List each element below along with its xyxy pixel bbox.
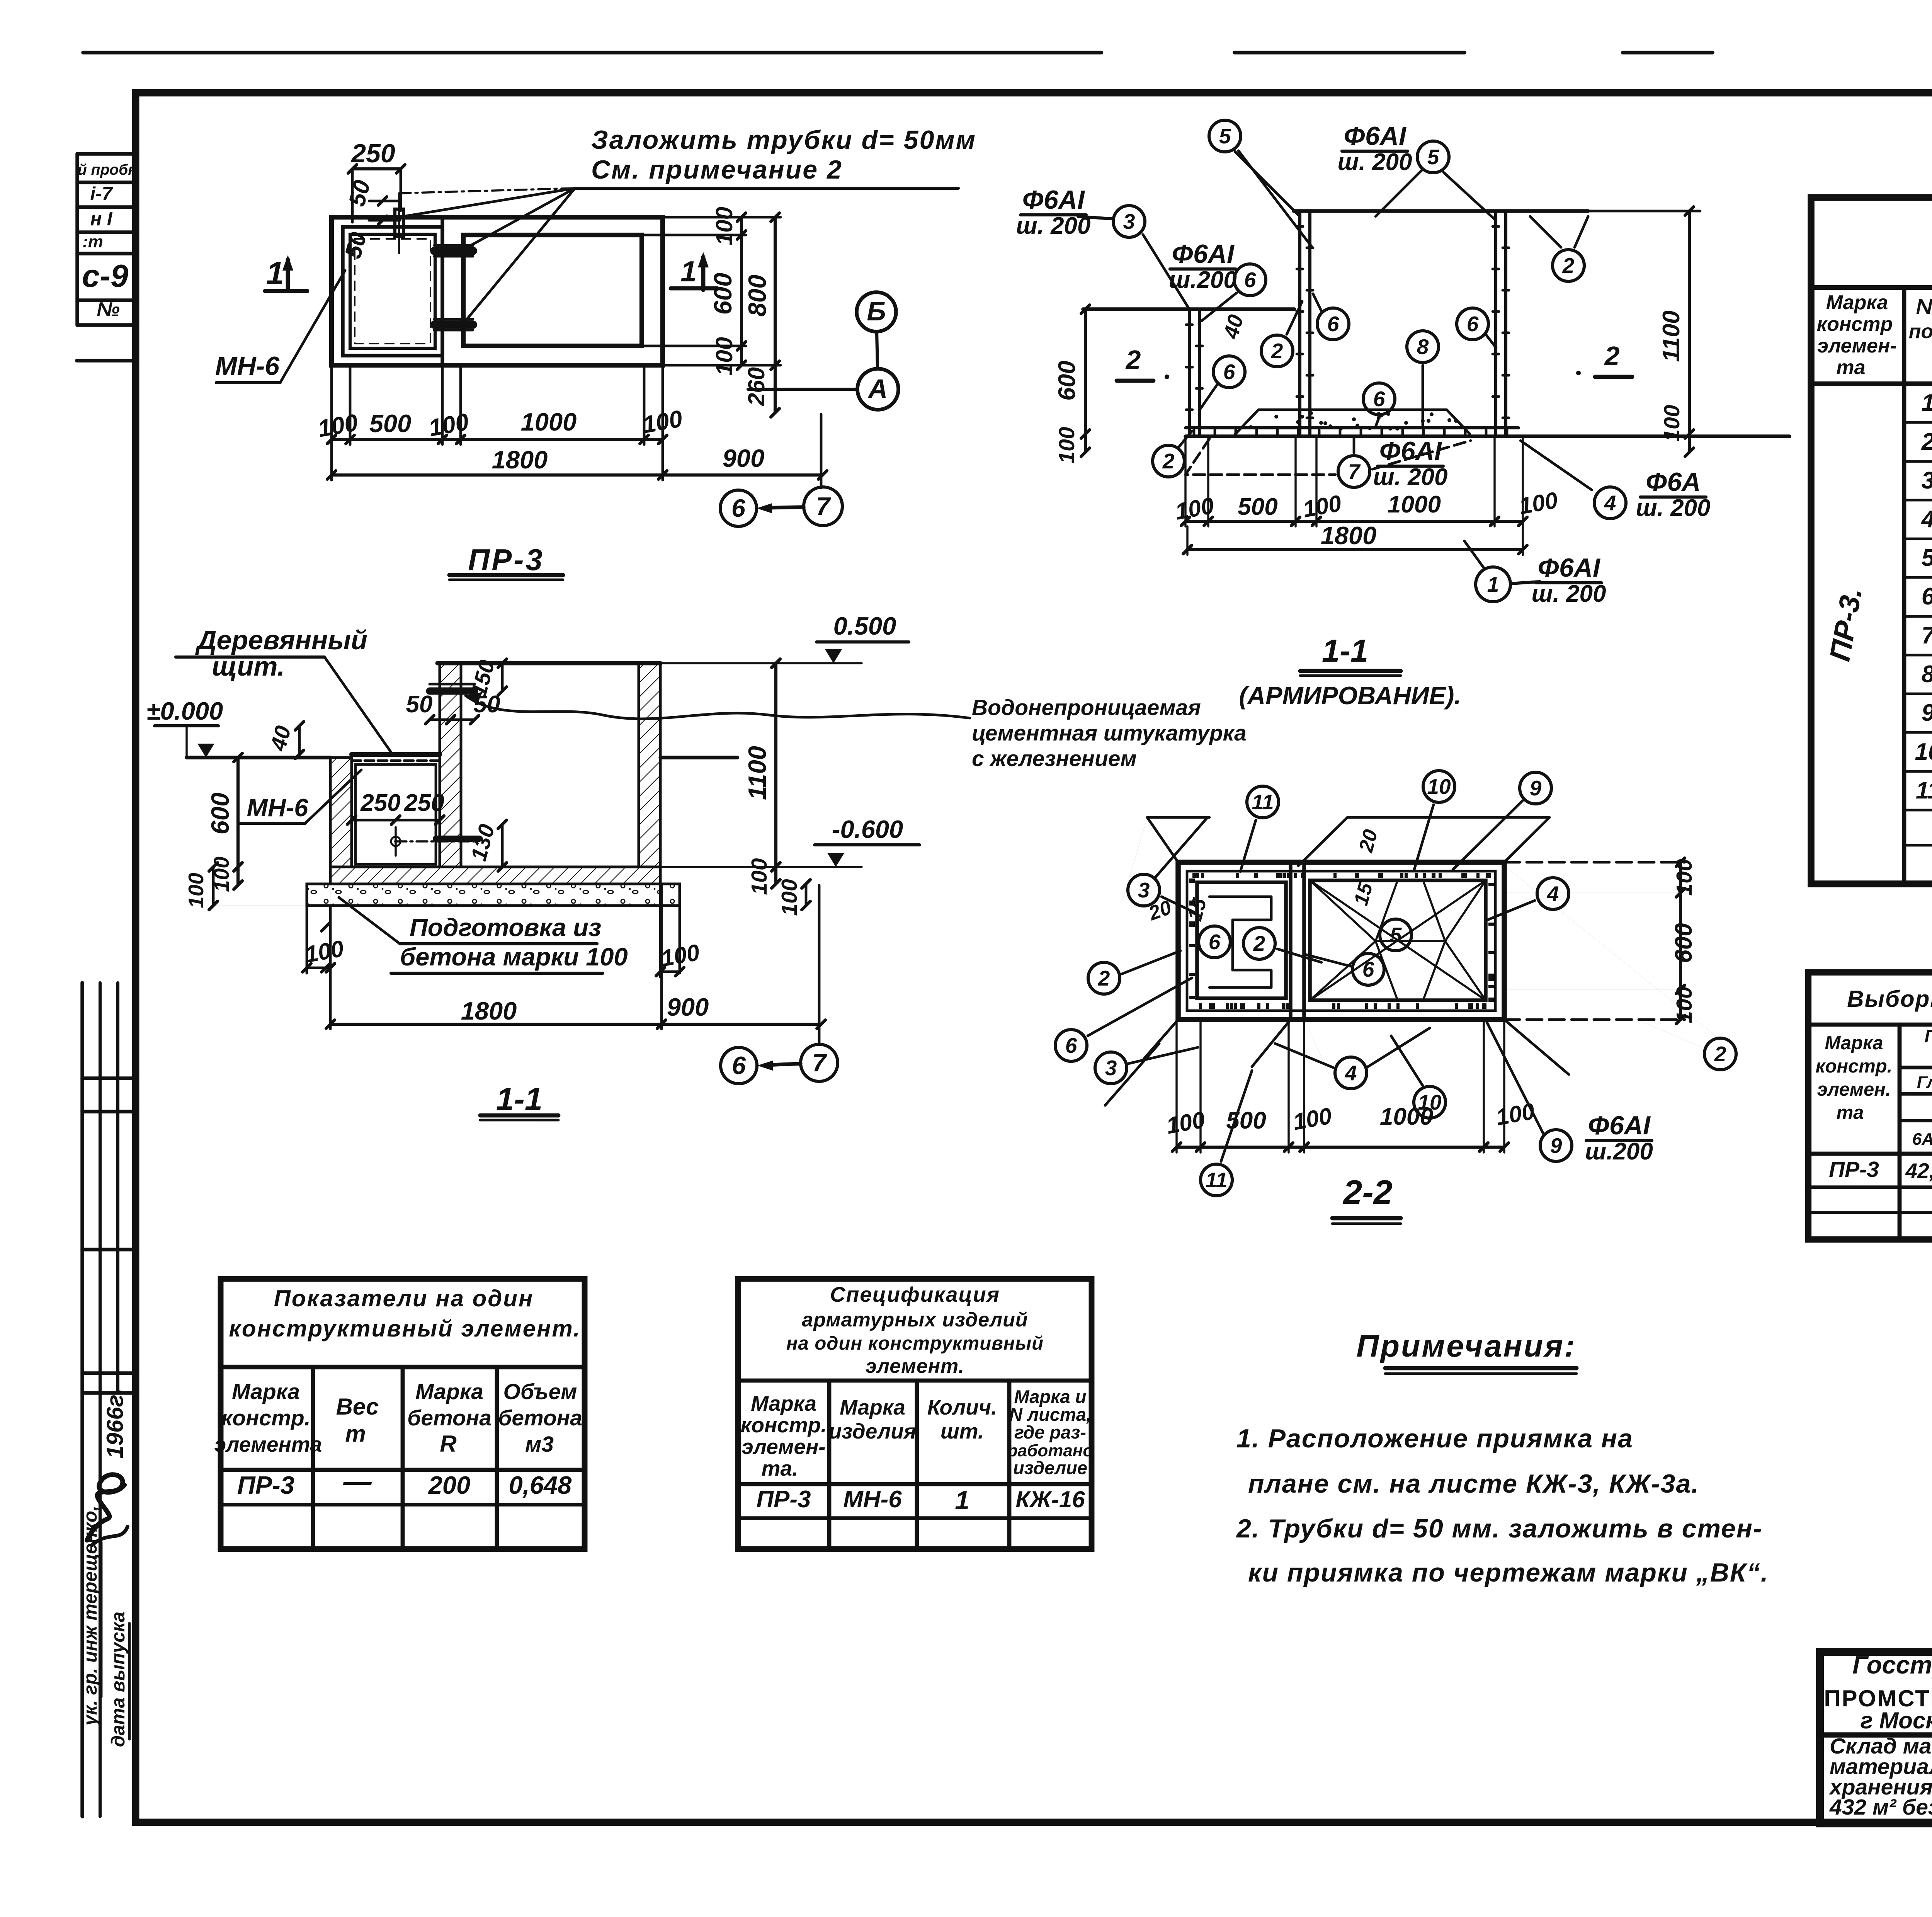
svg-text:изделия: изделия: [829, 1419, 916, 1443]
svg-text:100: 100: [747, 858, 772, 895]
section 1-1 hatched left wall: [330, 758, 352, 867]
svg-text:г Москва - 1966г: г Москва - 1966г: [1861, 1708, 1932, 1733]
svg-text:поз.: поз.: [1909, 320, 1932, 343]
section 1-1 hatched right wall: [639, 663, 660, 867]
svg-text:Φ6АI: Φ6АI: [1537, 553, 1601, 582]
svg-text:100: 100: [1660, 405, 1684, 441]
svg-text:100: 100: [1672, 986, 1697, 1023]
svg-text:4: 4: [1345, 1061, 1357, 1085]
svg-text:элемен-: элемен-: [1817, 335, 1896, 357]
svg-text:т: т: [345, 1421, 366, 1447]
svg-text:2: 2: [1125, 345, 1141, 375]
bed trapezoid with dots: [1235, 410, 1470, 434]
svg-text:250: 250: [404, 790, 444, 816]
section mark 1 right: [671, 286, 717, 291]
svg-text:3: 3: [1922, 467, 1932, 494]
svg-text:Вес: Вес: [336, 1394, 379, 1420]
svg-text:5: 5: [1922, 545, 1932, 571]
svg-text:900: 900: [723, 444, 764, 472]
svg-text:Φ6АI: Φ6АI: [1344, 121, 1407, 151]
svg-text:ш. 200: ш. 200: [1337, 149, 1412, 175]
svg-text:Колич.: Колич.: [927, 1395, 997, 1419]
svg-text:МН-6: МН-6: [843, 1486, 902, 1513]
svg-text:где раз-: где раз-: [1014, 1422, 1086, 1442]
circled bar marks with leaders: [1209, 120, 1241, 152]
svg-text:7: 7: [816, 492, 831, 520]
svg-text:11: 11: [1916, 777, 1932, 804]
svg-text:600: 600: [206, 793, 234, 834]
svg-text:2: 2: [1562, 254, 1575, 278]
svg-text:Φ6АI: Φ6АI: [1172, 239, 1235, 269]
svg-text:1000: 1000: [521, 408, 577, 436]
svg-text:№: №: [1916, 295, 1932, 318]
svg-text:Горячекатаная арматурная ста: Горячекатаная арматурная сталь: [1925, 1026, 1932, 1046]
svg-text:ки приямка по чертежам ма: ки приямка по чертежам марки „ВК“.: [1248, 1558, 1769, 1587]
svg-text:0,648: 0,648: [509, 1471, 572, 1499]
svg-text:ш. 200: ш. 200: [1016, 213, 1090, 239]
svg-text:та.: та.: [762, 1456, 798, 1480]
svg-text:250: 250: [360, 790, 400, 816]
svg-text:Показатели на один: Показатели на один: [274, 1285, 534, 1311]
svg-text:Марка: Марка: [1825, 1033, 1883, 1054]
svg-text:11: 11: [1205, 1168, 1227, 1192]
svg-text:Φ6АI: Φ6АI: [1022, 185, 1085, 215]
svg-text:4: 4: [1547, 882, 1559, 906]
svg-text:МН-6: МН-6: [215, 351, 280, 381]
svg-text:6: 6: [731, 494, 746, 522]
svg-text:1800: 1800: [461, 997, 517, 1025]
dim 250 top: [351, 169, 354, 222]
svg-text:6АI: 6АI: [1912, 1130, 1932, 1149]
svg-text:констр: констр: [1817, 313, 1893, 335]
svg-text:1000: 1000: [1388, 491, 1441, 518]
right vertical dims 1100 100 100: [774, 663, 777, 884]
arm view right dims: [1588, 210, 1700, 213]
svg-text:Примечания:: Примечания:: [1356, 1329, 1577, 1364]
svg-text:6: 6: [1362, 957, 1374, 981]
svg-text:1: 1: [1922, 390, 1932, 416]
sidebar tall boxes: [80, 983, 84, 1817]
svg-text:6: 6: [1467, 312, 1479, 336]
center wall: [1289, 866, 1293, 1016]
svg-text:2: 2: [1162, 449, 1175, 473]
svg-text:Деревянный: Деревянный: [195, 625, 367, 655]
svg-text:элемен-: элемен-: [742, 1435, 825, 1459]
wooden cover over left pit: [352, 752, 440, 757]
svg-text:МН-6: МН-6: [247, 793, 309, 822]
anchor bolt symbol: [391, 837, 400, 846]
svg-text:изделие: изделие: [1013, 1457, 1087, 1478]
svg-text:9: 9: [1550, 1134, 1562, 1158]
section 2-2 right dims: [1504, 861, 1685, 864]
wall rebar pairs: [1188, 309, 1191, 434]
svg-text:та: та: [1836, 356, 1865, 379]
svg-text:ПР-3: ПР-3: [756, 1486, 811, 1513]
left pit inner liner: [355, 764, 436, 864]
2-2 circled marks: [1247, 786, 1279, 818]
svg-text:Φ6А: Φ6А: [1646, 467, 1701, 497]
plan node circles 6 7 below: [720, 490, 757, 526]
svg-text:н I: н I: [90, 209, 113, 230]
svg-text:Водонепроницаемая: Водонепроницаемая: [972, 695, 1201, 720]
svg-text:ПР-3: ПР-3: [468, 543, 544, 577]
plate at top of center wall: [430, 688, 474, 695]
svg-text:ПР-3: ПР-3: [1829, 1157, 1879, 1182]
left vertical dims 600 100: [236, 758, 240, 885]
svg-text:1: 1: [1487, 572, 1499, 596]
svg-text:600: 600: [709, 273, 737, 315]
svg-text:А: А: [867, 374, 888, 404]
embedded plates on wall: [434, 247, 473, 255]
svg-text:ш.200: ш.200: [1585, 1138, 1653, 1165]
svg-text:2: 2: [1714, 1042, 1726, 1066]
svg-text:Гладкая классаАI: Гладкая классаАI: [1917, 1073, 1932, 1092]
section 1-1 bottom dims: [329, 906, 332, 1029]
section 2-2 dims bottom: [1175, 1020, 1177, 1153]
svg-text:R: R: [440, 1431, 456, 1457]
svg-text:на один конструктивный: на один конструктивный: [786, 1333, 1044, 1354]
svg-text:элемент.: элемент.: [866, 1355, 964, 1377]
svg-text:2: 2: [1604, 341, 1620, 371]
svg-text:1966г.: 1966г.: [102, 1388, 128, 1458]
svg-text:9: 9: [1922, 700, 1932, 726]
svg-text:бетона: бетона: [407, 1406, 492, 1430]
svg-text:См. примечание 2: См. примечание 2: [591, 155, 843, 184]
svg-text:500: 500: [369, 409, 411, 438]
left cell step contour: [1209, 897, 1271, 987]
svg-text:260: 260: [743, 367, 769, 406]
leader lines to plates: [403, 188, 575, 216]
svg-text:6: 6: [1223, 360, 1235, 384]
svg-text:6: 6: [1327, 312, 1339, 336]
svg-text:1100: 1100: [1658, 310, 1685, 362]
svg-text:2. Трубки d= 50 мм. заложит: 2. Трубки d= 50 мм. заложить в стен-: [1236, 1514, 1763, 1543]
svg-text:ш. 200: ш. 200: [1531, 581, 1606, 607]
outer rect: [1178, 862, 1504, 1020]
svg-text:8: 8: [1417, 335, 1429, 359]
svg-text:6: 6: [1244, 268, 1256, 292]
plan right cell inner wall: [463, 235, 642, 346]
svg-text:та: та: [1837, 1102, 1864, 1123]
svg-text:7: 7: [1922, 622, 1932, 649]
svg-text:арматурных изделий: арматурных изделий: [802, 1309, 1028, 1331]
svg-text:2-2: 2-2: [1342, 1173, 1392, 1211]
svg-text:6: 6: [1209, 930, 1221, 954]
svg-text:11: 11: [1252, 790, 1274, 814]
svg-text:2: 2: [1098, 966, 1110, 990]
corner break lines: [1147, 817, 1178, 862]
svg-text:і-7: і-7: [90, 184, 113, 204]
svg-text:Марка: Марка: [1826, 291, 1888, 314]
svg-text:1100: 1100: [743, 746, 771, 800]
svg-text:м3: м3: [525, 1432, 554, 1457]
svg-text:10: 10: [1915, 739, 1932, 765]
svg-text:10: 10: [1427, 775, 1451, 798]
plan view PR-3 outer wall: [332, 217, 663, 365]
svg-text:Марка: Марка: [840, 1395, 905, 1419]
svg-text:-0.600: -0.600: [832, 815, 903, 843]
svg-text:600: 600: [1670, 923, 1697, 963]
plan center wall lines: [440, 217, 444, 365]
svg-text:с-9: с-9: [82, 258, 128, 294]
svg-text:констр.: констр.: [740, 1413, 827, 1437]
svg-text:3: 3: [1138, 878, 1150, 902]
ground lines: [187, 756, 330, 759]
svg-text:№: №: [97, 298, 120, 321]
circles 6 7 below section: [721, 1047, 757, 1084]
svg-text:Б: Б: [867, 296, 886, 326]
svg-text:1: 1: [266, 255, 284, 291]
svg-text::т: :т: [82, 232, 103, 251]
svg-text:5: 5: [1427, 145, 1440, 169]
svg-text:3: 3: [1123, 209, 1135, 233]
arm view bottom dims: [1184, 436, 1186, 526]
svg-text:1. Расположение приямка: 1. Расположение приямка на: [1236, 1424, 1633, 1453]
svg-text:2: 2: [1253, 931, 1265, 955]
svg-text:900: 900: [667, 993, 709, 1021]
sidebar stamp table: [77, 152, 136, 156]
svg-text:1: 1: [680, 255, 697, 288]
svg-text:10: 10: [1418, 1090, 1442, 1114]
section mark 1 left: [265, 289, 307, 293]
svg-text:600: 600: [1054, 361, 1080, 400]
svg-text:КЖ-16: КЖ-16: [1015, 1486, 1085, 1512]
svg-text:ук. гр. инж терещенко,: ук. гр. инж терещенко,: [80, 1505, 101, 1726]
svg-text:шт.: шт.: [940, 1419, 984, 1443]
svg-text:±0.000: ±0.000: [146, 697, 223, 725]
node circles B and A: [857, 292, 896, 332]
svg-text:дата выпуска: дата выпуска: [108, 1612, 129, 1747]
svg-text:42,0: 42,0: [1905, 1159, 1932, 1183]
svg-text:й пробк: й пробк: [78, 162, 136, 178]
svg-text:элемента: элемента: [214, 1432, 322, 1456]
top lines: [1294, 209, 1588, 213]
svg-text:6: 6: [1922, 583, 1932, 610]
tick dots along inner rebar: [1380, 873, 1383, 878]
svg-text:800: 800: [743, 275, 771, 317]
svg-text:цементная штукатурка: цементная штукатурка: [972, 721, 1247, 746]
svg-text:432 м² без рампы: 432 м² без рампы: [1829, 1795, 1932, 1820]
svg-text:2: 2: [1921, 429, 1932, 455]
plan right vertical dims: [332, 217, 746, 218]
svg-text:констр.: констр.: [221, 1406, 310, 1430]
svg-text:ш.200: ш.200: [1169, 267, 1237, 293]
svg-text:—: —: [343, 1466, 372, 1497]
svg-text:50: 50: [406, 691, 433, 718]
svg-text:9: 9: [1530, 776, 1542, 800]
scan top edge marks: [83, 51, 1101, 54]
top line of pit walls: [437, 661, 660, 666]
svg-text:Выборка стали на один: Выборка стали на один конструктивный эле…: [1847, 986, 1932, 1012]
svg-text:Марка: Марка: [415, 1379, 483, 1404]
inner rebar line: [1187, 871, 1495, 1011]
svg-text:Φ6АI: Φ6АI: [1588, 1111, 1651, 1140]
tube symbol top wall: [395, 209, 403, 236]
svg-text:5: 5: [1219, 124, 1231, 148]
svg-text:200: 200: [428, 1471, 470, 1499]
svg-text:Заложить трубки d= 50мм: Заложить трубки d= 50мм: [591, 125, 976, 155]
svg-text:0.500: 0.500: [833, 612, 896, 640]
svg-text:100: 100: [1054, 427, 1079, 463]
svg-text:Марка: Марка: [751, 1391, 816, 1415]
plan left cell MN-6 frame: [343, 227, 442, 356]
svg-text:6: 6: [1065, 1033, 1077, 1057]
svg-text:1-1: 1-1: [1322, 633, 1368, 669]
svg-text:Госстрой СССР: Госстрой СССР: [1852, 1651, 1932, 1679]
svg-text:плане см. на листе КЖ: плане см. на листе КЖ-3, КЖ-3а.: [1248, 1469, 1699, 1498]
svg-text:100: 100: [711, 207, 737, 245]
svg-text:2: 2: [1271, 339, 1283, 363]
svg-text:Объем: Объем: [503, 1379, 577, 1404]
plan bottom dim chain 1: [330, 365, 333, 444]
svg-text:100: 100: [711, 337, 737, 376]
svg-text:бетона марки 100: бетона марки 100: [400, 943, 628, 971]
svg-text:с железнением: с железнением: [972, 746, 1137, 771]
svg-text:500: 500: [1238, 494, 1277, 520]
svg-text:3: 3: [1105, 1056, 1117, 1080]
lean concrete bed: [307, 884, 680, 906]
svg-text:Спецификация: Спецификация: [830, 1282, 1000, 1306]
svg-text:7: 7: [812, 1049, 827, 1077]
plan bottom dim chain 2: [330, 444, 333, 480]
section 1-1 floor slab: [330, 867, 660, 884]
svg-text:100: 100: [1672, 859, 1697, 896]
svg-text:250: 250: [350, 139, 395, 168]
svg-text:ш. 200: ш. 200: [1373, 464, 1447, 490]
svg-text:конструктивный элемент.: конструктивный элемент.: [229, 1316, 581, 1342]
svg-text:100: 100: [184, 873, 208, 908]
svg-text:(АРМИРОВАНИЕ).: (АРМИРОВАНИЕ).: [1239, 681, 1461, 710]
svg-text:Подготовка из: Подготовка из: [410, 913, 601, 941]
svg-text:констр.: констр.: [1816, 1056, 1893, 1077]
section 1-1 hatched center wall: [440, 663, 461, 867]
svg-text:8: 8: [1922, 661, 1932, 688]
bottom rebar band: [1185, 426, 1519, 429]
svg-text:4: 4: [1604, 491, 1616, 515]
svg-text:6: 6: [732, 1051, 746, 1079]
svg-text:5: 5: [1390, 923, 1402, 947]
arm view left dims: [1084, 309, 1087, 452]
left cell inner: [1197, 882, 1286, 998]
svg-text:ш. 200: ш. 200: [1636, 495, 1710, 521]
svg-text:7: 7: [1348, 460, 1361, 484]
svg-text:бетона: бетона: [498, 1406, 582, 1430]
svg-text:1800: 1800: [1321, 521, 1377, 550]
svg-text:1: 1: [955, 1486, 969, 1515]
svg-text:1-1: 1-1: [496, 1081, 543, 1117]
right cell inner: [1310, 880, 1486, 1000]
svg-text:6: 6: [1373, 387, 1385, 411]
svg-text:элемен.: элемен.: [1817, 1079, 1891, 1100]
right cell fan lines: [1310, 880, 1376, 941]
svg-text:4: 4: [1921, 506, 1932, 533]
svg-text:1800: 1800: [492, 446, 548, 474]
svg-text:Марка: Марка: [232, 1379, 300, 1404]
svg-text:100: 100: [777, 879, 802, 916]
svg-text:ПР-3: ПР-3: [237, 1471, 294, 1499]
